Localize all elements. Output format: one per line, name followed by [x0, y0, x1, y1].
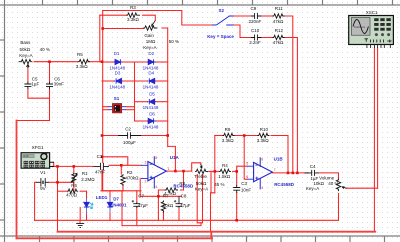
svg-text:D6: D6 — [149, 112, 155, 117]
battery V1 — [36, 178, 48, 187]
svg-text:U1B: U1B — [274, 156, 284, 161]
svg-text:40 %: 40 % — [40, 47, 50, 52]
wire sub line C7 — [121, 191, 123, 226]
svg-text:C3: C3 — [241, 181, 247, 186]
tiny red pin numbers — [145, 156, 276, 190]
wire R2 drop — [120, 165, 122, 174]
capacitor C6 39nF — [46, 82, 53, 89]
svg-text:50 %: 50 % — [169, 39, 179, 44]
svg-text:10nF: 10nF — [241, 187, 252, 192]
svg-text:1N4148: 1N4148 — [109, 84, 125, 89]
svg-text:1N4148: 1N4148 — [143, 125, 159, 130]
wire osc ground drop — [373, 48, 375, 232]
svg-text:D3: D3 — [115, 71, 121, 76]
wire C4 right to volume pot — [319, 173, 339, 179]
oscilloscope XSC1 — [349, 16, 394, 49]
potentiometer Bass body — [19, 60, 33, 64]
svg-text:8: 8 — [155, 156, 157, 160]
svg-text:47kΩ: 47kΩ — [273, 19, 284, 24]
bottom ruler ticks — [39, 236, 41, 242]
wire volume wiper row — [346, 187, 378, 189]
svg-text:D4: D4 — [148, 71, 154, 76]
diode D1 1N4148 — [114, 59, 122, 64]
wire R7 bottom — [163, 211, 165, 220]
svg-text:Key=A: Key=A — [19, 53, 32, 58]
resistor R7 10k vertical — [161, 201, 165, 213]
capacitor C9 220nF — [251, 13, 261, 19]
diode D4 1N4148 reversed — [147, 78, 156, 83]
resistor R9 3.3k — [223, 133, 235, 137]
capacitor C1 47nF — [94, 163, 110, 170]
wire R2 top step — [102, 157, 128, 166]
wire R4 right jog to U1B minus — [233, 166, 247, 171]
diode D7 1N4001 vertical — [107, 197, 112, 213]
wire gain pot left to rail — [103, 28, 144, 30]
capacitor C7 47uF polarized — [133, 203, 140, 208]
wire line B bottom — [17, 237, 213, 239]
svg-text:Tektronix: Tektronix — [354, 25, 366, 29]
svg-text:Treble: Treble — [194, 174, 207, 179]
svg-text:2: 2 — [145, 180, 147, 184]
svg-text:Volume: Volume — [319, 175, 335, 180]
svg-text:XFG1: XFG1 — [32, 145, 44, 150]
wire D7 bottom — [109, 213, 111, 220]
svg-text:39nF: 39nF — [54, 82, 65, 87]
wire C10 to R12 — [261, 37, 272, 39]
wire LED1 bottom lower — [86, 214, 88, 220]
svg-text:40 %: 40 % — [328, 181, 338, 186]
svg-text:2.2MΩ: 2.2MΩ — [81, 177, 95, 182]
wire bass pot right row — [34, 61, 78, 63]
svg-text:R11: R11 — [275, 6, 283, 11]
wire diode middle rail — [134, 62, 136, 121]
wire C6 branch vertical — [49, 62, 51, 82]
svg-text:1: 1 — [168, 167, 170, 171]
wire C2 left — [102, 135, 118, 137]
svg-text:470Ω: 470Ω — [66, 193, 78, 198]
wire diode right rail from gain pot — [162, 28, 168, 146]
svg-text:1MΩ: 1MΩ — [146, 39, 156, 44]
svg-text:3.3kΩ: 3.3kΩ — [127, 17, 140, 22]
wire R8 left riser — [158, 190, 164, 196]
svg-text:3: 3 — [145, 161, 147, 165]
wire XFG plus pin drop — [53, 162, 55, 166]
resistor R4 1.5k — [219, 169, 231, 173]
wire main left rail x=102.7 lower — [103, 170, 123, 191]
diode D6 1N4148 — [147, 118, 156, 123]
svg-text:D2: D2 — [148, 51, 154, 56]
wire treble right lead to R4 — [209, 170, 219, 172]
svg-text:1N4148: 1N4148 — [143, 84, 159, 89]
resistor R1 2.2M vertical with arrow — [72, 173, 76, 184]
wire C2 right to rail — [141, 135, 168, 137]
switch S1 red box — [108, 103, 126, 113]
svg-text:Key=A: Key=A — [306, 186, 319, 191]
wire R6 to LED1 — [86, 191, 88, 198]
wire battery plus vertical — [57, 166, 59, 231]
svg-text:220nF: 220nF — [249, 19, 262, 24]
svg-text:XSC1: XSC1 — [366, 10, 378, 15]
wire R1 bottom lead — [73, 182, 75, 191]
svg-text:9V: 9V — [40, 186, 46, 191]
svg-text:RC4558D: RC4558D — [274, 182, 295, 187]
svg-text:1µF: 1µF — [31, 82, 39, 87]
svg-text:S2: S2 — [219, 8, 225, 13]
svg-text:R9: R9 — [225, 127, 231, 132]
switch S2 — [212, 16, 234, 25]
svg-text:4: 4 — [261, 186, 263, 190]
wire R9 R10 mid drop to U1B plus — [244, 136, 247, 180]
ground symbol — [76, 224, 84, 228]
wire R5 right to rail — [88, 61, 102, 63]
potentiometer Treble body — [195, 169, 208, 173]
svg-text:S1: S1 — [114, 96, 120, 101]
svg-text:47µF: 47µF — [138, 203, 149, 208]
svg-text:5: 5 — [246, 161, 248, 165]
wire R6 row — [58, 190, 68, 192]
svg-text:C9: C9 — [251, 6, 257, 11]
svg-text:6: 6 — [246, 175, 248, 179]
wire volume pot bottom — [338, 194, 340, 221]
svg-text:Bass: Bass — [20, 40, 31, 45]
wire XFG output row — [53, 165, 58, 167]
wire line A bottom — [58, 231, 376, 233]
svg-text:2.2nF: 2.2nF — [249, 40, 261, 45]
wire U1B output row — [272, 172, 308, 174]
left ruler ticks — [0, 39, 5, 41]
wire R8 right to output riser — [181, 171, 184, 190]
svg-text:1N4148: 1N4148 — [143, 105, 159, 110]
resistor R3 3.3k — [126, 13, 140, 17]
svg-text:D1: D1 — [114, 51, 120, 56]
wire top row 2 through R3 — [100, 14, 127, 16]
wire R2 bottom to LED rail — [122, 184, 124, 191]
svg-text:47µF: 47µF — [180, 203, 191, 208]
svg-text:100µF: 100µF — [123, 140, 136, 145]
svg-text:C1: C1 — [97, 154, 103, 159]
wire R7 C8 top row — [140, 195, 181, 197]
svg-text:LED1: LED1 — [96, 195, 108, 200]
svg-text:10kΩ: 10kΩ — [313, 181, 324, 186]
capacitor C3 10nF — [233, 185, 240, 193]
resistor R10 3.3k — [258, 133, 270, 137]
svg-text:R5: R5 — [77, 52, 83, 57]
diode D5 1N4148 reversed — [147, 99, 156, 104]
wire C7 top — [136, 191, 138, 203]
wire output to treble wiper — [192, 163, 201, 171]
svg-text:Key = Space: Key = Space — [207, 34, 234, 39]
wire battery right lead — [49, 181, 58, 183]
svg-text:1.5kΩ: 1.5kΩ — [218, 174, 231, 179]
wire C9 to R11 — [261, 15, 272, 17]
wire input left vertical — [16, 121, 18, 239]
wire ground rail — [35, 219, 339, 221]
wire R8 left drop to rail — [157, 196, 159, 220]
wire top row 1 to S2 — [103, 11, 212, 26]
svg-text:D5: D5 — [149, 91, 155, 96]
wire main left rail x=102.7 upper — [102, 11, 104, 163]
wire D7 top — [109, 191, 111, 197]
resistor R11 47k — [273, 14, 285, 18]
svg-text:4.7kΩ: 4.7kΩ — [164, 191, 177, 196]
wire U1A output — [166, 170, 191, 172]
wire C8 bottom — [178, 208, 180, 221]
wire C1 to U1A minus input — [109, 164, 141, 166]
svg-text:Gain: Gain — [144, 33, 154, 38]
svg-text:4: 4 — [155, 185, 157, 189]
wire R1 top lead — [73, 166, 75, 173]
wire treble drop to line A — [210, 193, 212, 232]
svg-text:1N4001: 1N4001 — [111, 203, 127, 208]
svg-text:C7: C7 — [138, 194, 144, 199]
capacitor C2 100uF — [118, 132, 141, 138]
svg-text:8: 8 — [261, 157, 263, 161]
svg-text:R3: R3 — [130, 5, 136, 10]
wire R10 right drop — [271, 136, 288, 173]
resistor R12 47k — [273, 35, 285, 39]
top ruler ticks — [42, 0, 44, 5]
svg-text:C4: C4 — [310, 164, 316, 169]
wire C7 bottom to sub line — [136, 208, 138, 226]
wire rail step down to U1A output — [168, 146, 176, 171]
svg-text:C5: C5 — [32, 76, 38, 81]
svg-text:R4: R4 — [222, 163, 228, 168]
diode D2 1N4148 — [147, 59, 156, 64]
capacitor C4 1uF — [305, 170, 319, 176]
capacitor C8 47uF polarized — [176, 196, 183, 207]
wire C3 top lead — [236, 171, 238, 185]
wire bass wiper to C5 — [27, 66, 29, 81]
diode D3 1N4148 reversed — [114, 78, 123, 83]
wire R9 row — [215, 135, 223, 137]
svg-text:45 %: 45 % — [214, 182, 224, 187]
svg-text:1kHz: 1kHz — [23, 155, 29, 158]
wire R3 right to gain wiper riser — [143, 15, 156, 20]
wire diode row3 — [135, 101, 148, 103]
LED LED1 — [84, 198, 93, 214]
resistor R6 470 — [67, 189, 78, 193]
resistor R5 3.3k — [78, 60, 90, 64]
capacitor C10 2.2nF — [251, 35, 261, 41]
svg-text:3.3kΩ: 3.3kΩ — [76, 64, 89, 69]
svg-text:Key=A: Key=A — [195, 186, 208, 191]
svg-text:R2: R2 — [127, 170, 133, 175]
svg-text:R6: R6 — [71, 183, 77, 188]
wire ground riser — [79, 208, 81, 221]
wire diode row4 — [135, 120, 148, 122]
wire C6 bottom to ground drop — [17, 89, 50, 239]
svg-text:C6: C6 — [54, 76, 60, 81]
wire R9 left riser — [214, 136, 216, 193]
svg-text:C10: C10 — [251, 28, 260, 33]
wire diode row1 — [102, 61, 115, 63]
wire diode row2 — [102, 80, 115, 82]
capacitor C5 1uF — [24, 82, 31, 89]
wire S2 to C9 — [234, 15, 251, 17]
wire LED rail — [101, 190, 141, 192]
svg-text:470kΩ: 470kΩ — [125, 176, 139, 181]
wire C1 node down rail — [101, 170, 103, 191]
wire treble right drop — [211, 171, 215, 192]
svg-text:C2: C2 — [125, 126, 131, 131]
svg-text:7: 7 — [274, 168, 276, 172]
wire battery row to R1 — [58, 181, 74, 183]
svg-text:Key=A: Key=A — [143, 45, 156, 50]
potentiometer Volume body vertical — [336, 179, 340, 191]
wire rail A — [99, 15, 101, 62]
resistor R2 470k vertical — [121, 174, 125, 186]
wire input row XFG to C1 — [53, 165, 94, 167]
svg-text:V1: V1 — [40, 170, 46, 175]
wire line A-B connector — [210, 232, 212, 239]
svg-text:R10: R10 — [260, 127, 269, 132]
wire C5 bottom — [28, 89, 50, 98]
svg-text:3.3kΩ: 3.3kΩ — [222, 138, 235, 143]
svg-text:D7: D7 — [113, 196, 119, 201]
svg-text:47nF: 47nF — [95, 169, 106, 174]
wire C3 bottom to rail — [236, 193, 238, 220]
potentiometer Gain body — [143, 26, 157, 30]
wire S2 lower to C10 — [234, 25, 251, 38]
svg-text:50kΩ: 50kΩ — [20, 47, 31, 52]
wire S1 rows — [103, 106, 109, 108]
svg-text:R1: R1 — [82, 171, 88, 176]
function generator XFG1 — [21, 153, 54, 169]
wire U1A plus input drop — [139, 178, 141, 196]
svg-text:U1A: U1A — [170, 155, 180, 160]
wire battery minus drop — [35, 182, 37, 220]
thicker ground distribution lines — [17, 121, 376, 239]
svg-text:C8: C8 — [181, 194, 187, 199]
wire osc channel drop — [377, 48, 379, 188]
op-amp U1A — [141, 156, 166, 188]
svg-text:3.3kΩ: 3.3kΩ — [257, 138, 270, 143]
wire R11 right drop to output node — [285, 16, 293, 173]
wire R12 right drop to output node — [285, 38, 297, 173]
op-amp U1B — [247, 157, 273, 189]
svg-text:10kΩ: 10kΩ — [163, 203, 174, 208]
svg-text:R12: R12 — [275, 28, 284, 33]
wire ground symbol lead — [79, 220, 81, 223]
svg-text:47kΩ: 47kΩ — [273, 40, 284, 45]
resistor R8 4.7k — [165, 188, 178, 192]
svg-text:R8: R8 — [179, 181, 185, 186]
wire treble bottom loop — [197, 175, 202, 223]
